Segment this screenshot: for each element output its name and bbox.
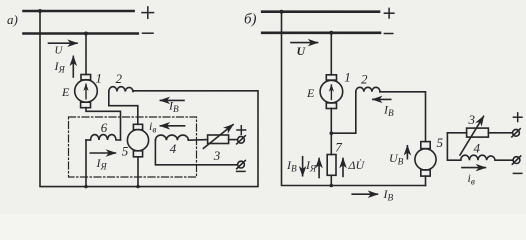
svg-text:U: U — [55, 45, 64, 57]
svg-text:4: 4 — [170, 141, 177, 156]
svg-text:б): б) — [244, 12, 257, 28]
svg-text:3: 3 — [213, 148, 221, 163]
svg-text:4: 4 — [474, 141, 481, 156]
svg-text:а): а) — [7, 12, 18, 27]
svg-text:1: 1 — [96, 71, 103, 86]
svg-text:3: 3 — [468, 112, 476, 127]
svg-text:2: 2 — [361, 72, 368, 87]
svg-text:5: 5 — [437, 135, 444, 150]
svg-text:6: 6 — [101, 120, 108, 135]
svg-text:E: E — [61, 85, 70, 99]
svg-text:2: 2 — [116, 71, 123, 86]
svg-text:ΔU̇: ΔU̇ — [348, 158, 366, 172]
svg-text:1: 1 — [344, 70, 351, 85]
svg-text:U: U — [297, 44, 307, 58]
svg-text:7: 7 — [335, 140, 342, 155]
svg-text:E: E — [306, 86, 315, 100]
svg-text:5: 5 — [122, 144, 129, 159]
